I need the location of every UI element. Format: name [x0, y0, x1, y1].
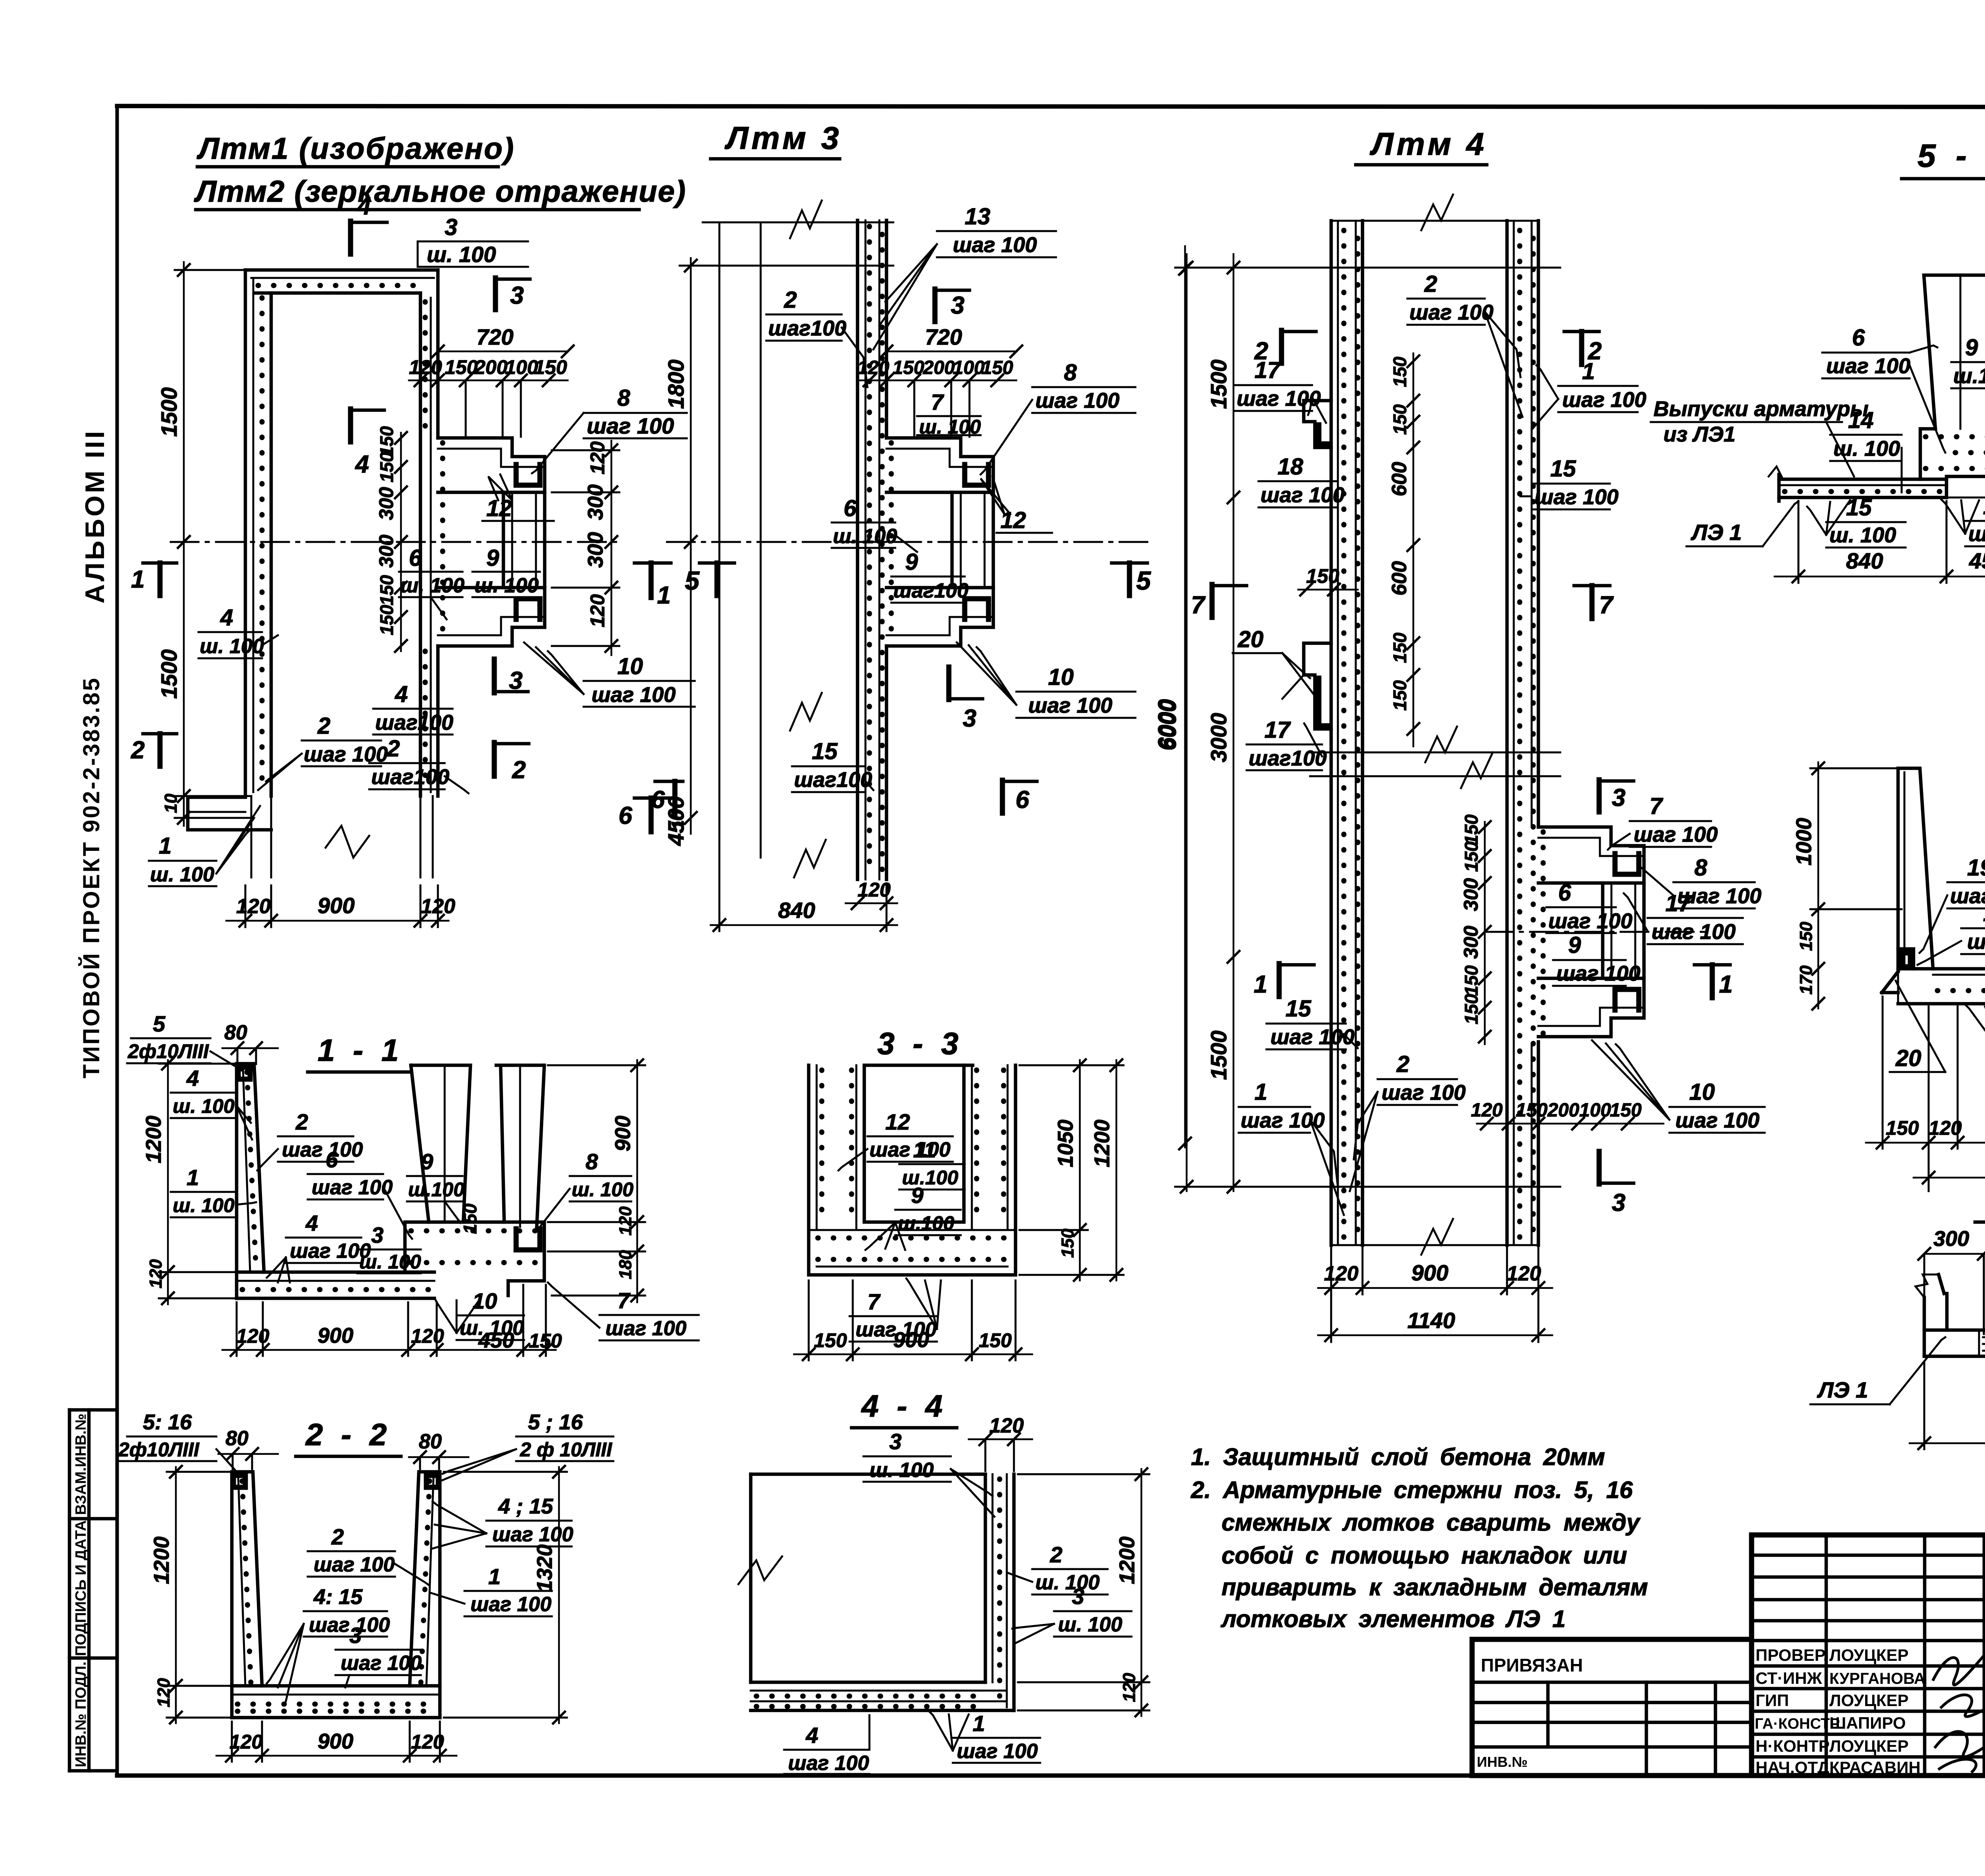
svg-text:ш. 100: ш. 100	[427, 242, 496, 267]
svg-text:2: 2	[1050, 1542, 1062, 1567]
svg-text:120: 120	[411, 1325, 444, 1347]
svg-text:4 ; 15: 4 ; 15	[498, 1494, 553, 1518]
svg-text:120: 120	[1120, 1673, 1139, 1702]
svg-text:900: 900	[893, 1328, 929, 1352]
dim chain 120 150 200 100 150	[858, 380, 1016, 382]
svg-text:ЛЭ 1: ЛЭ 1	[1817, 1377, 1868, 1402]
Ltm4 left dim chains	[1186, 254, 1188, 1191]
svg-text:120: 120	[616, 1206, 635, 1236]
svg-text:5 - 5: 5 - 5	[1918, 138, 1985, 174]
svg-text:120: 120	[858, 357, 889, 378]
svg-text:ЛОУЦКЕР: ЛОУЦКЕР	[1829, 1737, 1909, 1755]
svg-text:ш.100: ш.100	[1968, 522, 1985, 546]
section mark 1 left	[143, 561, 177, 565]
svg-text:Лтм 3: Лтм 3	[725, 120, 842, 156]
svg-text:900: 900	[318, 893, 355, 918]
svg-text:приварить к закладным детал: приварить к закладным деталям	[1222, 1574, 1648, 1600]
svg-text:3: 3	[349, 1623, 362, 1648]
svg-text:7: 7	[1599, 592, 1614, 619]
svg-text:4: 15: 4: 15	[313, 1585, 363, 1609]
section mark 2 left	[143, 732, 177, 736]
svg-text:120: 120	[409, 356, 442, 378]
svg-text:лотковых элементов ЛЭ 1: лотковых элементов ЛЭ 1	[1220, 1606, 1566, 1632]
svg-text:8: 8	[1694, 855, 1707, 881]
dim chain 120 150 200 100 150	[409, 380, 568, 382]
Ltm3 horizontal floor line	[680, 265, 893, 267]
Ltm3 wall band	[856, 220, 860, 879]
section mark 6 right lower	[634, 796, 669, 800]
svg-text:900: 900	[611, 1116, 635, 1151]
svg-text:шаг 100: шаг 100	[312, 1176, 393, 1199]
svg-text:5: 16: 5: 16	[143, 1410, 192, 1434]
section mark 1 right	[634, 561, 671, 565]
svg-text:840: 840	[1846, 548, 1883, 573]
3-3 wall inner lines	[817, 1065, 856, 1230]
2-2 right wall	[410, 1472, 440, 1718]
svg-text:ЛОУЦКЕР: ЛОУЦКЕР	[1829, 1691, 1909, 1710]
Ltm4 inner dim column 150/600/600	[1413, 353, 1415, 746]
svg-text:шаг 100: шаг 100	[953, 233, 1037, 257]
svg-text:ИНВ.№: ИНВ.№	[1477, 1754, 1528, 1770]
Ltm10 top dim chain 300 540 300	[1924, 1253, 1985, 1255]
svg-text:шаг 100: шаг 100	[492, 1523, 573, 1546]
7-7 left dim chain	[1817, 762, 1819, 1008]
svg-text:150: 150	[1610, 1100, 1642, 1121]
Ltm4 bottom dims	[1318, 1287, 1552, 1289]
svg-text:шаг 100: шаг 100	[1409, 301, 1494, 324]
svg-text:9: 9	[421, 1149, 433, 1174]
section mark 5 left	[700, 561, 734, 565]
svg-text:шаг 100: шаг 100	[1562, 388, 1646, 412]
svg-text:шаг100: шаг100	[375, 711, 453, 735]
svg-text:150: 150	[814, 1329, 847, 1352]
left dim chain 1800/4500	[690, 258, 692, 834]
bottom dim 840	[711, 924, 897, 926]
svg-text:НАЧ.ОТД.: НАЧ.ОТД.	[1756, 1758, 1834, 1777]
section 1-1: drawing	[127, 1011, 699, 1357]
left stamp strip	[69, 1410, 117, 1771]
svg-text:шаг100: шаг100	[794, 768, 872, 792]
svg-text:2ф10ЛIII: 2ф10ЛIII	[118, 1438, 200, 1461]
svg-text:150: 150	[892, 357, 924, 378]
svg-text:1200: 1200	[150, 1537, 173, 1584]
svg-text:1320: 1320	[533, 1544, 557, 1592]
svg-text:ш. 100: ш. 100	[173, 1194, 235, 1217]
title block: signature table	[1752, 1535, 1985, 1777]
svg-text:шаг 100: шаг 100	[1028, 694, 1112, 717]
svg-text:ш.100: ш.100	[898, 1212, 954, 1234]
svg-text:6: 6	[1016, 786, 1029, 814]
Ltm10 left stub wall	[1924, 1294, 1947, 1356]
section 3-3: header	[867, 1026, 973, 1065]
svg-text:150: 150	[376, 452, 397, 482]
svg-text:12: 12	[486, 496, 512, 521]
right dim 6000	[1184, 246, 1186, 1147]
svg-text:120: 120	[229, 1731, 263, 1753]
svg-text:3: 3	[445, 214, 457, 240]
svg-text:шаг 100: шаг 100	[1826, 354, 1910, 378]
svg-text:450: 450	[1969, 548, 1985, 573]
svg-text:7: 7	[1650, 793, 1663, 819]
svg-text:300: 300	[584, 532, 607, 568]
svg-text:собой с помощью накладок и: собой с помощью накладок или	[1222, 1542, 1627, 1569]
svg-text:5: 5	[153, 1011, 166, 1036]
section 1-1: header	[308, 1033, 411, 1072]
svg-text:шаг 100: шаг 100	[1967, 930, 1985, 954]
svg-text:7: 7	[867, 1289, 881, 1314]
2-2 bottom slab	[232, 1684, 440, 1688]
svg-text:СТ·ИНЖ: СТ·ИНЖ	[1756, 1669, 1822, 1687]
section mark 6 lower right	[1000, 780, 1005, 813]
svg-text:150: 150	[1516, 1100, 1548, 1121]
view Ltm10: drawing	[1810, 1227, 1985, 1450]
svg-text:шаг100: шаг100	[371, 765, 449, 789]
svg-text:1: 1	[1582, 359, 1595, 384]
svg-text:6: 6	[1852, 325, 1865, 351]
view Ltm10: header	[1975, 1182, 1985, 1222]
svg-text:1200: 1200	[1090, 1120, 1114, 1167]
left margin rotated captions	[79, 429, 110, 1078]
svg-text:150: 150	[1461, 994, 1482, 1024]
svg-text:6: 6	[844, 496, 857, 521]
svg-text:3: 3	[1072, 1584, 1084, 1609]
svg-text:1: 1	[657, 582, 671, 609]
svg-text:шаг 100: шаг 100	[1270, 1025, 1355, 1049]
view Ltm3: header	[711, 120, 842, 159]
svg-text:17: 17	[1255, 357, 1281, 383]
svg-text:1: 1	[1719, 971, 1733, 998]
svg-text:17: 17	[1665, 891, 1692, 916]
Ltm1 right middle flange lower	[438, 588, 545, 646]
5-5 LE1 stub	[1777, 474, 1781, 501]
svg-text:15: 15	[1550, 456, 1576, 482]
1-1 bottom slab	[237, 1271, 434, 1274]
dim 720	[438, 351, 568, 353]
svg-text:шаг100: шаг100	[1249, 746, 1327, 770]
section mark 3 upper	[933, 289, 938, 322]
Ltm3 left panel edges	[719, 222, 721, 858]
svg-text:ш. 100: ш. 100	[173, 1095, 235, 1117]
svg-text:КРАСАВИН: КРАСАВИН	[1829, 1758, 1921, 1777]
svg-text:ш. 100: ш. 100	[359, 1251, 421, 1273]
Ltm4 left wall lower flange	[1304, 643, 1331, 729]
svg-text:ш.100: ш.100	[1953, 364, 1985, 388]
svg-text:4: 4	[355, 451, 369, 478]
svg-text:720: 720	[476, 324, 513, 349]
inner dim chain 150s left of flange	[400, 433, 402, 651]
svg-text:шаг 100: шаг 100	[290, 1240, 371, 1263]
svg-text:ш. 100: ш. 100	[1829, 523, 1896, 547]
svg-text:9: 9	[905, 549, 918, 575]
svg-text:600: 600	[1388, 462, 1411, 496]
section 4-4: drawing	[738, 1414, 1149, 1775]
svg-text:шаг 100: шаг 100	[592, 683, 676, 707]
2-2 left dims	[175, 1467, 177, 1723]
1-1 right footing block	[405, 1222, 544, 1296]
svg-text:100: 100	[505, 356, 538, 378]
svg-text:ш. 100: ш. 100	[1035, 1571, 1100, 1594]
svg-text:15: 15	[1846, 495, 1872, 521]
section mark 6 lower left	[655, 780, 683, 783]
svg-text:6: 6	[619, 802, 632, 829]
section mark 2 bottom	[492, 742, 497, 776]
svg-text:4 - 4: 4 - 4	[861, 1388, 947, 1423]
svg-text:120: 120	[146, 1259, 166, 1288]
svg-text:3: 3	[1612, 784, 1625, 812]
svg-text:150: 150	[445, 356, 478, 378]
svg-text:150: 150	[460, 1203, 480, 1234]
svg-text:1000: 1000	[1792, 818, 1816, 866]
svg-text:1. Защитный слой бетона 20м: 1. Защитный слой бетона 20мм	[1191, 1444, 1605, 1470]
section 7-7: drawing	[1792, 702, 1985, 1191]
Ltm4 top and bottom closings	[1331, 220, 1538, 222]
Ltm1 axis dash-dot line	[171, 541, 619, 543]
svg-text:20: 20	[1895, 1045, 1921, 1071]
svg-text:2ф10ЛIII: 2ф10ЛIII	[127, 1040, 209, 1062]
svg-text:шаг 100: шаг 100	[1548, 909, 1632, 933]
svg-text:шаг 100: шаг 100	[341, 1652, 422, 1675]
svg-text:4: 4	[186, 1066, 199, 1091]
svg-text:1: 1	[159, 833, 172, 859]
section 3-3: drawing	[794, 1059, 1124, 1361]
svg-text:ПОДПИСЬ И ДАТА: ПОДПИСЬ И ДАТА	[73, 1520, 89, 1656]
Ltm1 bottom dim chain 120 900 120	[226, 920, 449, 922]
svg-text:шаг100: шаг100	[893, 579, 969, 602]
5-5 wall block above	[1924, 275, 1985, 429]
1-1 right wall B	[496, 1065, 544, 1227]
svg-text:7: 7	[617, 1288, 631, 1313]
svg-text:ГА·КОНСТР: ГА·КОНСТР	[1755, 1716, 1840, 1732]
Ltm3 top edge	[703, 222, 893, 224]
Ltm3 transverse band	[950, 492, 954, 588]
svg-text:ш. 100: ш. 100	[474, 574, 539, 597]
svg-text:120: 120	[1507, 1262, 1541, 1285]
svg-text:ГИП: ГИП	[1756, 1691, 1789, 1710]
svg-text:ш. 100: ш. 100	[150, 863, 214, 886]
svg-text:9: 9	[1568, 932, 1581, 958]
svg-text:2: 2	[1424, 271, 1437, 297]
svg-text:ЛЭ 1: ЛЭ 1	[1690, 520, 1742, 545]
svg-text:900: 900	[318, 1324, 353, 1348]
svg-text:120: 120	[236, 895, 271, 918]
svg-text:10: 10	[472, 1288, 497, 1313]
svg-text:150: 150	[376, 575, 397, 605]
svg-text:150: 150	[981, 357, 1013, 378]
svg-text:ш.100: ш.100	[902, 1166, 958, 1189]
svg-text:150: 150	[376, 605, 397, 635]
svg-text:720: 720	[925, 324, 962, 349]
section 2-2: header	[296, 1417, 401, 1456]
svg-text:8: 8	[1064, 360, 1077, 386]
svg-text:смежных лотков сварить межд: смежных лотков сварить между	[1222, 1509, 1641, 1536]
svg-text:6: 6	[651, 786, 665, 814]
svg-text:10: 10	[1689, 1079, 1715, 1105]
svg-text:100: 100	[953, 357, 985, 378]
svg-text:2: 2	[331, 1524, 344, 1549]
svg-text:шаг100: шаг100	[1950, 884, 1985, 908]
Ltm1 bottom wall end block	[188, 797, 271, 830]
svg-text:15: 15	[812, 738, 838, 764]
svg-text:170: 170	[1796, 965, 1816, 995]
section mark 5 right	[1112, 561, 1147, 565]
svg-text:3: 3	[371, 1222, 384, 1247]
svg-text:1200: 1200	[142, 1116, 166, 1163]
svg-text:150: 150	[1389, 357, 1410, 387]
svg-text:4: 4	[395, 681, 408, 707]
svg-text:АЛЬБОМ III: АЛЬБОМ III	[80, 429, 110, 604]
svg-text:КУРГАНОВА: КУРГАНОВА	[1829, 1670, 1925, 1687]
svg-text:шаг 100: шаг 100	[1035, 389, 1120, 413]
4-4 right dims	[1141, 1469, 1143, 1716]
7-7 base slab	[1882, 991, 1898, 995]
svg-text:6: 6	[409, 545, 422, 571]
svg-text:1 - 1: 1 - 1	[318, 1033, 403, 1068]
svg-text:9: 9	[1965, 335, 1978, 361]
svg-text:шаг 100: шаг 100	[869, 1138, 950, 1161]
section mark 7 right	[1574, 584, 1610, 588]
section mark 3 upper right	[1597, 780, 1602, 812]
2-2 right dim 1320	[558, 1467, 560, 1723]
svg-text:шаг 100: шаг 100	[1652, 920, 1736, 944]
svg-text:10: 10	[668, 810, 688, 830]
svg-text:2: 2	[387, 736, 400, 762]
view Ltm1: plan drawing	[131, 193, 695, 927]
section mark 2 right	[1564, 330, 1599, 334]
svg-text:18: 18	[1278, 454, 1303, 480]
3-3 outer U	[809, 1065, 1016, 1275]
svg-text:5: 5	[1136, 566, 1151, 595]
svg-text:200: 200	[923, 357, 955, 378]
2-2 bottom dim chain	[216, 1755, 457, 1757]
svg-text:6000: 6000	[1155, 699, 1181, 750]
svg-text:1500: 1500	[1206, 359, 1231, 409]
svg-text:1: 1	[1255, 1079, 1267, 1105]
svg-text:ш. 100: ш. 100	[1058, 1613, 1122, 1636]
3-3 inner cavity	[864, 1065, 964, 1222]
svg-text:80: 80	[419, 1430, 442, 1453]
svg-text:150: 150	[1796, 922, 1816, 951]
svg-text:19: 19	[1967, 855, 1985, 881]
svg-text:Лтм2 (зеркальное отражение): Лтм2 (зеркальное отражение)	[194, 175, 686, 208]
svg-text:150: 150	[1389, 632, 1410, 663]
svg-text:шаг 100: шаг 100	[314, 1553, 395, 1576]
7-7 left wall tapered	[1898, 768, 1933, 972]
svg-text:15: 15	[1285, 996, 1311, 1022]
svg-text:150: 150	[534, 356, 567, 378]
svg-text:12: 12	[885, 1109, 910, 1134]
svg-text:7: 7	[1191, 592, 1206, 619]
Ltm4 middle break	[1310, 752, 1560, 754]
svg-text:2 ф 10ЛIII: 2 ф 10ЛIII	[520, 1438, 613, 1461]
svg-text:3: 3	[951, 292, 964, 319]
svg-text:шаг 100: шаг 100	[470, 1593, 551, 1616]
svg-text:300: 300	[584, 484, 607, 520]
svg-text:ш. 100: ш. 100	[869, 1459, 934, 1482]
Ltm10 dim 1140	[1910, 1442, 1985, 1444]
svg-text:80: 80	[224, 1021, 247, 1044]
svg-text:3: 3	[889, 1429, 902, 1454]
1-1 left wall tapered	[237, 1064, 264, 1298]
svg-text:150: 150	[1461, 965, 1482, 996]
svg-text:150: 150	[1886, 1117, 1919, 1139]
1-1 right dims	[636, 1060, 638, 1231]
1-1 right wall A	[411, 1065, 470, 1222]
section mark 1 right	[1694, 963, 1730, 967]
svg-text:200: 200	[1547, 1100, 1579, 1121]
svg-text:5: 5	[685, 566, 700, 595]
svg-text:шаг 100: шаг 100	[1382, 1081, 1466, 1105]
section 4-4: header	[852, 1388, 957, 1428]
svg-text:450: 450	[478, 1328, 514, 1352]
svg-text:ш. 100: ш. 100	[572, 1178, 634, 1201]
svg-text:шаг 100: шаг 100	[1634, 823, 1718, 846]
svg-text:3: 3	[510, 282, 524, 309]
Ltm1 left wall band	[244, 270, 247, 796]
svg-text:1: 1	[131, 566, 145, 593]
svg-text:13: 13	[965, 204, 991, 229]
svg-text:120: 120	[236, 1325, 270, 1347]
svg-text:ш. 100: ш. 100	[400, 574, 464, 597]
svg-text:1140: 1140	[1407, 1308, 1455, 1333]
svg-text:6: 6	[326, 1147, 338, 1172]
svg-text:3000: 3000	[1206, 713, 1231, 762]
svg-text:1: 1	[973, 1711, 985, 1736]
svg-text:шаг 100: шаг 100	[788, 1752, 869, 1775]
svg-text:9: 9	[911, 1183, 923, 1208]
svg-text:2: 2	[295, 1109, 308, 1134]
svg-text:3: 3	[509, 667, 522, 694]
svg-text:4: 4	[305, 1211, 318, 1236]
svg-text:150: 150	[1461, 814, 1482, 845]
4-4 left cut edge	[749, 1474, 753, 1682]
Ltm4 left wall band	[1330, 221, 1333, 1245]
Ltm3 cross flange upper	[887, 438, 993, 492]
7-7 dim 1140	[1914, 1177, 1985, 1179]
svg-text:1500: 1500	[1206, 1030, 1231, 1080]
svg-text:ш. 100: ш. 100	[200, 635, 264, 658]
Ltm3 axis dash-dot	[667, 541, 1151, 543]
svg-text:150: 150	[1389, 680, 1410, 711]
svg-text:10: 10	[617, 654, 643, 679]
section mark 4 top	[348, 221, 353, 254]
section mark 3 lower (ltm3)	[946, 667, 952, 700]
svg-text:шаг 100: шаг 100	[1260, 483, 1345, 507]
svg-text:2 - 2: 2 - 2	[305, 1417, 391, 1452]
svg-text:Н·КОНТР: Н·КОНТР	[1756, 1737, 1830, 1755]
Ltm4 axis dash-dot at cross	[1485, 931, 1707, 933]
Ltm1 right wall band	[419, 293, 422, 796]
svg-text:шаг 100: шаг 100	[957, 1740, 1038, 1763]
svg-text:20: 20	[1237, 627, 1264, 652]
svg-text:11: 11	[913, 1137, 936, 1162]
svg-text:6: 6	[1558, 880, 1571, 906]
Ltm1 top wall band	[245, 268, 438, 272]
Ltm4 right cross flange	[1538, 827, 1644, 883]
svg-text:5 ; 16: 5 ; 16	[528, 1410, 583, 1434]
section mark 3 lower right	[1597, 1151, 1602, 1184]
svg-text:120: 120	[1324, 1262, 1359, 1285]
left dim chain 1500/1500	[183, 262, 185, 826]
svg-text:шаг100: шаг100	[768, 316, 846, 340]
svg-text:Лтм1 (изображено): Лтм1 (изображено)	[197, 132, 515, 166]
dim 720	[887, 351, 1016, 353]
svg-text:1: 1	[187, 1165, 199, 1190]
svg-text:120: 120	[586, 441, 609, 474]
svg-text:10: 10	[1048, 664, 1074, 690]
4-4 top cut line	[751, 1473, 985, 1476]
4-4 bottom slab	[751, 1681, 985, 1684]
svg-text:ш. 100: ш. 100	[833, 525, 897, 548]
